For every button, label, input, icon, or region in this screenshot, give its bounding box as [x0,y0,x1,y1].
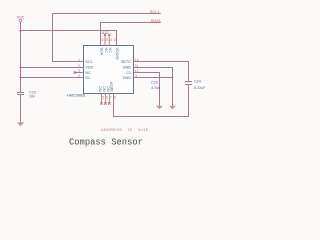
svg-text:NC: NC [108,48,112,54]
svg-text:NC: NC [85,71,91,75]
svg-text:SCL: SCL [85,60,92,64]
svg-text:VCC: VCC [17,15,25,19]
svg-text:12: 12 [135,58,139,62]
svg-text:SCL1: SCL1 [150,10,160,14]
svg-text:SDA: SDA [100,48,104,56]
svg-text:4.7uF: 4.7uF [151,86,161,90]
svg-text:SETP: SETP [110,81,114,91]
svg-text:GND: GND [123,66,132,70]
svg-text:4: 4 [78,74,80,78]
svg-text:2: 2 [78,64,80,68]
svg-text:10n: 10n [29,95,35,99]
svg-text:SDA1: SDA1 [151,19,161,23]
svg-text:1: 1 [78,58,80,62]
svg-text:15: 15 [104,38,108,42]
svg-text:10: 10 [135,69,139,73]
svg-text:ADDRESS IS 0x1E: ADDRESS IS 0x1E [101,128,149,132]
svg-text:0.22uF: 0.22uF [194,86,206,90]
svg-text:C1: C1 [126,71,131,75]
svg-text:14: 14 [109,38,113,42]
svg-text:13: 13 [113,38,117,42]
svg-text:U12: U12 [102,31,109,35]
svg-text:SETC: SETC [121,60,131,64]
svg-text:9: 9 [135,74,137,78]
svg-text:VDDIO: VDDIO [115,48,119,60]
svg-text:NC: NC [104,48,108,54]
svg-text:5: 5 [102,96,104,100]
svg-text:6: 6 [106,96,108,100]
svg-text:8: 8 [114,96,116,100]
svg-text:Compass Sensor: Compass Sensor [69,137,143,147]
svg-text:VDD: VDD [85,66,93,70]
svg-text:HMC5883L: HMC5883L [67,93,86,97]
svg-text:3: 3 [78,69,80,73]
svg-text:GND: GND [123,76,132,80]
svg-text:16: 16 [100,38,104,42]
svg-text:7: 7 [110,96,112,100]
svg-text:C24: C24 [194,79,201,83]
svg-text:11: 11 [135,64,139,68]
svg-text:S1: S1 [85,76,90,80]
svg-text:C25: C25 [151,80,158,84]
